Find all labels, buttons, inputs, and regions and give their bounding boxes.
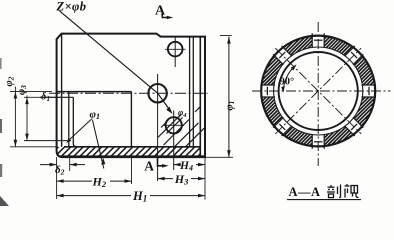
svg-text:φ1: φ1 <box>224 101 236 111</box>
axis centerline <box>49 92 208 94</box>
leader arrowhead <box>166 107 172 114</box>
svg-text:H4: H4 <box>179 160 193 173</box>
dim phi1 (right) <box>220 35 232 37</box>
left end chamfer edge line <box>61 34 63 147</box>
svg-text:90°: 90° <box>280 77 295 88</box>
svg-text:φ4: φ4 <box>178 108 187 120</box>
dim phi2 (left) <box>10 91 52 93</box>
hanzi SHI (view) hand-drawn <box>345 184 359 198</box>
svg-text:φ2: φ2 <box>4 76 16 86</box>
middle hole circle <box>148 84 166 102</box>
left view: main outline of cylinder <box>57 34 205 158</box>
lower hole circle <box>166 117 182 133</box>
ring slots (Z holes) <box>260 33 377 150</box>
partial section hatch near lower hole <box>158 107 204 147</box>
dim H3 <box>158 178 173 180</box>
svg-text:H3: H3 <box>174 172 189 187</box>
scan artifact: left page edge marks <box>0 58 9 206</box>
bore top line <box>57 91 132 93</box>
svg-text:H2: H2 <box>92 175 107 190</box>
lower hole centerline <box>173 111 175 171</box>
caption underline <box>287 199 361 201</box>
dim H1 <box>57 195 131 197</box>
ring inner circle <box>279 52 358 130</box>
bore bottom line <box>64 146 200 148</box>
leader line Z x phi b <box>59 11 170 112</box>
svg-text:A: A <box>144 159 154 174</box>
dim phi3 (left) <box>24 96 62 98</box>
middle hole vertical centerline <box>157 74 159 181</box>
top hole circle <box>168 42 183 57</box>
phi3 bore bottom edge line <box>24 140 69 142</box>
svg-text:φ1: φ1 <box>90 109 100 122</box>
dim delta2 <box>40 164 57 166</box>
top hole centerline <box>174 38 176 68</box>
svg-text:φ3: φ3 <box>17 85 29 95</box>
ring centerlines <box>252 22 391 166</box>
bottom edge emphasis <box>60 155 205 157</box>
svg-text:H1: H1 <box>132 189 147 204</box>
svg-text:Z×φb: Z×φb <box>56 0 87 14</box>
bottom extension lines <box>56 157 58 199</box>
svg-text:A—A: A—A <box>289 185 321 199</box>
90 degree dimension arc <box>283 66 295 92</box>
bore step line (delta1) <box>40 96 74 98</box>
ring outer circle <box>261 36 375 147</box>
A-A ring section: hatch <box>261 34 376 149</box>
right end inner edge line <box>199 37 201 158</box>
inner vertical line x=68.8 <box>68 92 70 147</box>
bottom wall hatch band <box>48 147 220 158</box>
ring mid circle <box>274 47 363 135</box>
svg-text:A: A <box>155 4 166 19</box>
svg-text:δ2: δ2 <box>55 164 65 177</box>
cavity right wall x=131.4 <box>130 92 132 147</box>
dim H4 <box>174 164 180 166</box>
hanzi POU (section) hand-drawn <box>327 185 341 198</box>
bore wall x=73.3 with bottom fillet <box>73 97 77 147</box>
right step verticals <box>189 37 191 147</box>
dim H2 <box>57 180 92 182</box>
